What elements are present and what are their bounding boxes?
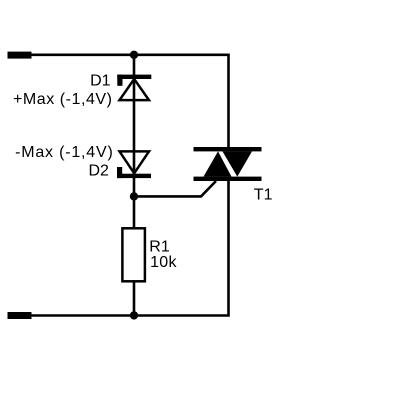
svg-text:-Max (-1,4V): -Max (-1,4V) [15, 144, 114, 161]
terminal bottom-left [8, 312, 32, 319]
wire top horizontal to right corner and down to T1 [31, 55, 229, 147]
svg-text:10k: 10k [150, 254, 177, 271]
node bottom junction [130, 311, 138, 319]
resistor R1 [122, 228, 144, 281]
svg-text:T1: T1 [254, 187, 273, 204]
node top junction [130, 51, 138, 59]
triac T1 [194, 147, 262, 181]
svg-text:D2: D2 [89, 162, 110, 179]
diode D1 [117, 75, 151, 101]
diode D2 [117, 151, 151, 178]
wire R1 bottom to node [133, 282, 136, 316]
terminal top-left [8, 52, 32, 59]
svg-text:D1: D1 [90, 73, 111, 90]
wire left vertical through D1 D2 to R1 [133, 55, 136, 228]
wire right vertical below T1 to bottom corner [31, 181, 229, 316]
svg-text:+Max (-1,4V): +Max (-1,4V) [13, 91, 113, 108]
node D2 gate junction [130, 192, 138, 200]
wire gate horizontal and diagonal to T1 [134, 181, 216, 196]
